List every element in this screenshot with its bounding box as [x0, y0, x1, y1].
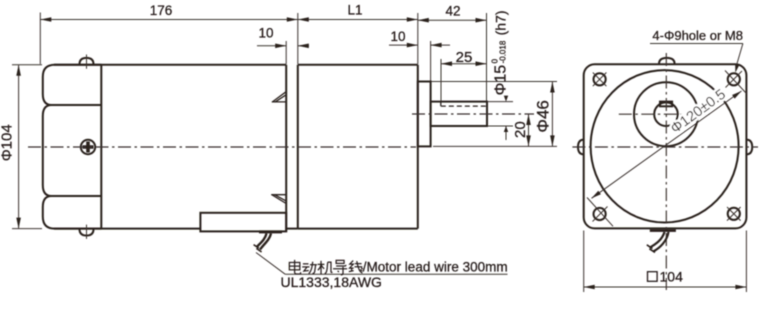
- ext phi104 bottom: [12, 228, 42, 230]
- rear center screw: [81, 140, 95, 154]
- char dong: [302, 262, 317, 274]
- svg-text:(h7): (h7): [493, 10, 509, 35]
- side lead wires: [254, 234, 271, 253]
- dim 176: [40, 3, 298, 22]
- leader 4-phi9 hole: [650, 28, 743, 73]
- cap divider line 2: [50, 195, 101, 197]
- svg-text:25: 25: [456, 49, 473, 66]
- front hub centerline: [619, 113, 710, 115]
- dim phi120 diagonal: [592, 87, 742, 199]
- front lead wires: [647, 232, 669, 252]
- svg-text:10: 10: [258, 26, 273, 41]
- front top bolt bump: [659, 58, 675, 64]
- svg-text:4-Φ9hole or M8: 4-Φ9hole or M8: [652, 28, 743, 43]
- dim 42: [418, 4, 487, 23]
- front keyway: [660, 102, 672, 107]
- extension lines side view: [12, 13, 557, 229]
- dim phi46: [534, 82, 555, 147]
- ext hub face: [430, 41, 432, 81]
- motor axis centerline: [28, 146, 416, 148]
- svg-text:Φ104: Φ104: [0, 124, 16, 161]
- dim 10 first: [257, 26, 309, 49]
- dim phi104: [0, 65, 21, 229]
- svg-text:/Motor lead wire 300mm: /Motor lead wire 300mm: [363, 260, 508, 275]
- dim L1: [298, 3, 418, 22]
- dim 25: [441, 49, 487, 66]
- svg-text:Φ15: Φ15: [493, 65, 510, 96]
- corner hole TL: [593, 73, 607, 87]
- ext shaft end: [486, 13, 488, 101]
- hub boss: [418, 82, 431, 147]
- front vertical centerline: [665, 53, 667, 290]
- motor joint line 2: [297, 65, 299, 229]
- svg-text:104: 104: [660, 269, 684, 285]
- label motor lead wire text: [281, 260, 508, 291]
- label CJK dian dong ji dao xian (drawn): [289, 260, 362, 275]
- upper clamp tab: [272, 92, 285, 102]
- motor body outline: [54, 65, 298, 229]
- front shaft circle: [654, 102, 678, 126]
- svg-text:10: 10: [390, 29, 405, 44]
- front wire exit slot: [650, 229, 676, 232]
- front left tab: [578, 140, 584, 155]
- svg-text:20: 20: [512, 121, 529, 138]
- ext shaft bottom right: [488, 125, 514, 127]
- ext joint 297.8: [297, 13, 299, 64]
- corner hole BR: [727, 207, 741, 221]
- hub circle with gap: [634, 82, 698, 146]
- svg-text:-0.018: -0.018: [499, 40, 508, 63]
- gearbox body: [298, 65, 418, 229]
- motor rear cap outline with band cusps: [43, 65, 102, 229]
- ext hub bottom right: [433, 145, 557, 147]
- dim 10 second: [389, 29, 450, 47]
- ext 176 left: [39, 13, 41, 65]
- char dian: [289, 260, 300, 274]
- shaft keyway hidden line: [441, 102, 487, 107]
- ext keyway start: [440, 59, 442, 101]
- svg-text:42: 42: [445, 4, 460, 19]
- terminal box: [200, 213, 286, 234]
- leader motor lead wire: [256, 253, 508, 275]
- lower clamp tab: [272, 195, 286, 203]
- ext gearbox face: [417, 13, 419, 64]
- front right tab: [746, 140, 752, 155]
- svg-text:176: 176: [150, 3, 173, 18]
- char xian: [349, 261, 363, 273]
- front horizontal centerline: [572, 146, 758, 148]
- ext hub top right: [432, 81, 558, 83]
- corner hole BL: [587, 198, 613, 227]
- ext joint 286.2: [285, 41, 287, 64]
- svg-text:Φ46: Φ46: [534, 100, 553, 132]
- bottom through-bolt bump: [80, 225, 94, 239]
- svg-text:L1: L1: [347, 3, 362, 18]
- front view flange square: [584, 64, 747, 228]
- top through-bolt bump: [80, 55, 94, 69]
- dim square104: [584, 231, 747, 293]
- cap divider line 1: [50, 104, 101, 106]
- ext shaft top right: [488, 101, 514, 103]
- svg-text:UL1333,18AWG: UL1333,18AWG: [281, 274, 382, 290]
- ext phi104 top: [12, 64, 42, 66]
- motor joint line 1: [285, 65, 287, 232]
- rear cap right edge: [100, 65, 102, 229]
- motor body circle: [591, 70, 739, 222]
- char ji: [318, 261, 333, 274]
- output shaft: [431, 102, 487, 126]
- char dao: [333, 260, 347, 275]
- dim phi15: [491, 10, 510, 140]
- shaft axis centerline: [412, 113, 534, 115]
- corner hole TR: [725, 71, 747, 94]
- dim 20: [512, 114, 531, 146]
